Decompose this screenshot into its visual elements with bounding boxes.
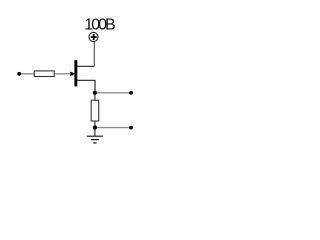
svg-text:100B: 100B: [84, 16, 115, 33]
